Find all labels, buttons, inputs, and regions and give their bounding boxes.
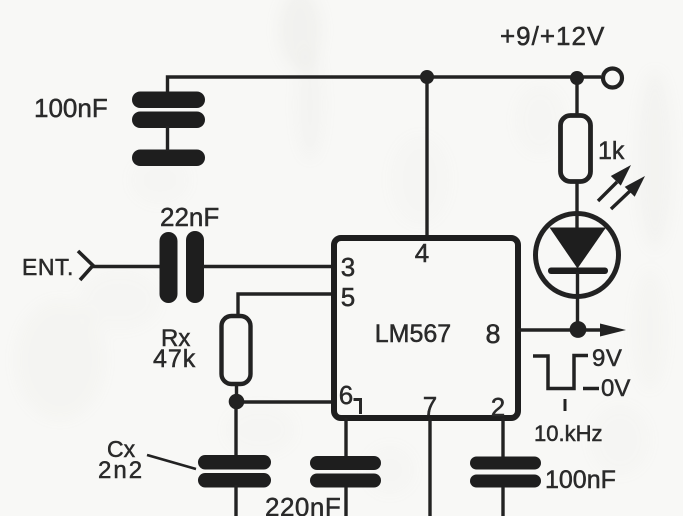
wire: +V supply rail (168, 77, 602, 94)
svg-text:7: 7 (423, 391, 437, 421)
wire: input to 22nF (92, 265, 162, 268)
node: Rx/Cx/pin6 junction (229, 394, 245, 410)
terminal: +9/+12V open circle (603, 69, 622, 88)
node: junction above 1k resistor (570, 71, 584, 85)
waveform: frequency tick (564, 399, 567, 411)
waveform: negative pulse symbol (533, 356, 588, 389)
svg-text:2n2: 2n2 (98, 457, 144, 484)
leader line from 2n2 label to Cx (147, 455, 196, 469)
svg-text:9V: 9V (592, 345, 622, 372)
resistor 1k (561, 116, 591, 182)
wire: 220nF to bottom edge (344, 487, 347, 516)
wire: pin 7 to bottom edge (ground) (428, 418, 431, 516)
wire: LED cathode to output node (576, 272, 579, 330)
terminal: output arrow (578, 324, 626, 337)
LED cathode bar (548, 268, 608, 275)
capacitor 100nF (pin 2) (470, 457, 541, 488)
svg-text:100nF: 100nF (34, 93, 108, 123)
capacitor 220nF (310, 456, 381, 488)
wire: pin 5 to Rx top (238, 294, 334, 317)
svg-text:22nF: 22nF (160, 202, 219, 232)
terminal: input chevron (78, 251, 93, 280)
svg-text:4: 4 (415, 238, 429, 268)
svg-text:8: 8 (485, 319, 500, 349)
wire: +V rail down to 1k resistor (575, 77, 578, 116)
wire: pin-2 100nF to bottom edge (501, 487, 504, 516)
wire: 1k to LED (575, 181, 578, 229)
wire: Cx to bottom edge (234, 485, 237, 516)
svg-text:220nF: 220nF (265, 492, 341, 516)
waveform: 0V dash (583, 387, 599, 391)
svg-text:2: 2 (491, 392, 505, 422)
capacitor 22nF (160, 231, 205, 303)
resistor Rx 47k (222, 316, 251, 384)
LED emission arrow 2 (611, 176, 645, 209)
svg-text:LM567: LM567 (375, 320, 451, 348)
svg-text:10.kHz: 10.kHz (534, 421, 602, 446)
svg-text:6: 6 (339, 380, 353, 410)
wire: 100nF inner stub (166, 126, 169, 151)
wire: pin 8 to output node (518, 328, 578, 331)
svg-text:ENT.: ENT. (22, 254, 74, 280)
node: junction above pin 4 (420, 70, 434, 84)
label: pin 1 (354, 400, 361, 415)
wire: Rx bottom to junction (235, 384, 238, 400)
svg-text:+9/+12V: +9/+12V (500, 21, 605, 51)
wire: pin 2 to 100nF (501, 418, 504, 457)
LED emission arrow 1 (598, 165, 631, 201)
capacitor Cx 2n2 (198, 455, 271, 488)
wire: junction down to Cx (234, 400, 237, 455)
svg-text:47k: 47k (153, 345, 196, 373)
svg-text:100nF: 100nF (545, 466, 616, 494)
LED anode triangle (550, 228, 607, 269)
svg-text:5: 5 (341, 282, 355, 312)
IC U1 LM567 body (334, 238, 518, 418)
capacitor 100nF top-left (three plates) (132, 92, 205, 167)
wire: pin 1 to 220nF (344, 418, 347, 457)
wire: pin 4 to +V rail (425, 77, 428, 238)
node: output junction (570, 321, 587, 338)
wire: 22nF to pin 3 (203, 265, 334, 268)
svg-text:0V: 0V (601, 375, 630, 402)
LED circle (536, 214, 619, 297)
svg-text:3: 3 (341, 252, 355, 282)
wire: junction to pin 6 (237, 400, 335, 403)
svg-text:1k: 1k (598, 137, 625, 165)
